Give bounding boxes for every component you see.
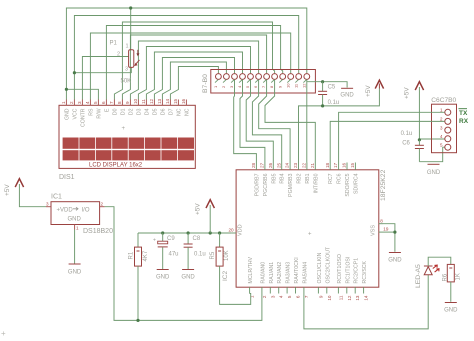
wire net E: LCD pin6 to header pad9 <box>106 26 282 100</box>
svg-text:4: 4 <box>85 101 90 104</box>
ground GND at C5 <box>340 88 354 98</box>
wire net D5: LCD pin12 to header pad3 <box>154 58 234 100</box>
svg-text:C6C7B0: C6C7B0 <box>431 97 456 104</box>
ground GND at R6 <box>444 303 458 314</box>
resistor R1 4K7 <box>128 233 149 320</box>
svg-text:50K: 50K <box>121 79 132 85</box>
svg-text:11: 11 <box>141 99 146 104</box>
svg-text:RA3/AN3: RA3/AN3 <box>286 262 292 284</box>
connector C6C7B0 <box>431 97 456 153</box>
junction rail at +5V stem <box>209 231 212 234</box>
svg-text:+5V: +5V <box>365 85 372 97</box>
MCU bottom pin numbers <box>250 295 369 301</box>
svg-text:C8: C8 <box>193 236 201 242</box>
svg-text:GND: GND <box>340 93 354 99</box>
MCU bottom pin labels <box>248 246 368 283</box>
header B7-B0 <box>202 70 315 94</box>
wire R5 to MCU pin1 MCLR <box>220 266 251 304</box>
svg-text:NC: NC <box>184 108 190 116</box>
junction C5 bottom <box>321 104 324 107</box>
svg-text:D2: D2 <box>128 108 134 115</box>
wire staircase header pad5 to MCU pin26 <box>246 80 273 163</box>
svg-text:D1: D1 <box>120 108 126 115</box>
svg-text:27: 27 <box>260 162 265 168</box>
wire RX: connector pad2 to MCU pin18 <box>330 121 444 162</box>
MCU bottom pin stubs <box>250 287 364 293</box>
svg-text:18F25K22: 18F25K22 <box>380 169 387 201</box>
svg-text:12: 12 <box>149 98 154 104</box>
wire staircase header pad8 to MCU pin21 <box>265 80 315 163</box>
svg-text:VDD: VDD <box>238 224 244 236</box>
svg-text:+5V: +5V <box>404 87 411 99</box>
svg-text:GND: GND <box>181 275 195 281</box>
svg-text:28: 28 <box>251 162 256 168</box>
svg-text:GND: GND <box>427 170 441 176</box>
svg-text:+: + <box>122 126 126 132</box>
wire net D3: LCD pin10 to header pad5 <box>138 47 250 100</box>
svg-text:9: 9 <box>318 295 323 298</box>
svg-text:2: 2 <box>262 295 267 298</box>
junction GND jumper <box>65 88 68 91</box>
capacitor C6 0.1u <box>401 131 424 162</box>
svg-text:20: 20 <box>229 228 235 233</box>
svg-text:0.1u: 0.1u <box>194 252 206 258</box>
svg-text:RB2: RB2 <box>297 173 303 183</box>
svg-text:SDO/RC5: SDO/RC5 <box>345 173 351 196</box>
svg-text:RB5: RB5 <box>271 173 277 183</box>
wire staircase header pad7 to MCU pin24 <box>259 80 290 163</box>
temperature sensor IC1 DS18B20 <box>46 194 113 236</box>
svg-text:24: 24 <box>285 162 290 168</box>
svg-text:16: 16 <box>181 98 186 104</box>
LCD character cells <box>63 138 194 161</box>
wire LED anode to R6 <box>428 257 451 266</box>
svg-text:2: 2 <box>101 202 104 207</box>
svg-text:18: 18 <box>325 162 330 168</box>
svg-text:NC: NC <box>176 108 182 116</box>
junction rail at R5 <box>218 231 221 234</box>
wire VSS pins to ground <box>383 224 395 252</box>
junction JP1 pin3 on VCC wire <box>73 71 76 74</box>
svg-text:9: 9 <box>125 101 130 104</box>
svg-text:+5V: +5V <box>195 203 202 215</box>
svg-text:0.1u: 0.1u <box>401 131 413 137</box>
svg-text:C5: C5 <box>328 85 336 91</box>
svg-text:I/O: I/O <box>82 208 90 214</box>
wire header pad12 straight down to MCU pin22 <box>306 80 308 163</box>
svg-text:GND: GND <box>388 258 402 264</box>
svg-text:RC2/CCP1: RC2/CCP1 <box>354 258 360 284</box>
wire +5V rail VDD: R1 C9 C8 R5 to pin20 <box>138 232 232 234</box>
svg-text:R/W: R/W <box>96 108 102 118</box>
svg-text:GND: GND <box>444 308 458 314</box>
svg-text:5: 5 <box>93 101 98 104</box>
LCD pin stubs and numbers <box>61 98 191 132</box>
LCD DISPLAY DIS1 <box>59 105 195 168</box>
ground GND at DS18B20 <box>68 264 82 276</box>
svg-text:8: 8 <box>380 218 383 223</box>
supply +5V arrow near C5 <box>365 80 384 97</box>
resistor R5 10K pullup <box>210 233 230 266</box>
svg-text:17: 17 <box>333 162 338 168</box>
svg-text:DIS1: DIS1 <box>59 174 75 181</box>
svg-text:R1: R1 <box>128 251 134 259</box>
svg-text:TX: TX <box>459 110 468 117</box>
svg-text:VSS: VSS <box>371 225 377 236</box>
ground GND at connector <box>427 164 441 176</box>
svg-text:23: 23 <box>293 162 298 168</box>
svg-text:1: 1 <box>61 101 66 104</box>
svg-text:GND: GND <box>156 275 170 281</box>
svg-text:CONTR: CONTR <box>80 108 86 127</box>
wire DS18B20 I/O to MCU pin2 with R1 junction <box>105 207 262 321</box>
svg-text:7: 7 <box>109 101 114 104</box>
svg-text:22: 22 <box>302 162 307 168</box>
svg-text:D4: D4 <box>144 108 150 115</box>
svg-text:OSC1/CLKIN: OSC1/CLKIN <box>317 252 323 283</box>
svg-text:6: 6 <box>101 101 106 104</box>
svg-text:IC1: IC1 <box>51 194 62 201</box>
svg-text:D6: D6 <box>160 108 166 115</box>
svg-text:3: 3 <box>46 202 49 207</box>
svg-text:RA1/AN1: RA1/AN1 <box>269 262 275 284</box>
svg-text:25: 25 <box>276 162 281 168</box>
capacitor C5 0.1u <box>318 82 339 106</box>
svg-text:P1: P1 <box>110 41 118 47</box>
svg-text:14: 14 <box>165 98 170 104</box>
wire MCU pin7 to LED cathode <box>304 275 428 329</box>
svg-text:VCC: VCC <box>72 108 78 119</box>
svg-text:15: 15 <box>350 162 355 168</box>
svg-text:R6: R6 <box>442 273 448 281</box>
wire JP1 pin1 riser <box>130 8 132 50</box>
svg-text:+VDD: +VDD <box>57 208 74 214</box>
wire TX: connector pad1 to MCU pin17 <box>339 112 445 162</box>
svg-text:13: 13 <box>355 295 360 301</box>
svg-text:+: + <box>153 238 156 244</box>
svg-text:E: E <box>104 108 110 112</box>
svg-text:LED-A5: LED-A5 <box>415 264 422 288</box>
svg-text:GND: GND <box>68 270 82 276</box>
svg-text:3: 3 <box>270 295 275 298</box>
wire net D0: LCD pin7 to header pad8 <box>114 22 274 100</box>
svg-text:1: 1 <box>126 44 129 50</box>
svg-text:3: 3 <box>77 101 82 104</box>
wire net GND: LCD pin1 to header pad12, top outer loop <box>66 8 306 100</box>
svg-text:10: 10 <box>285 83 290 88</box>
wire GND jumper to LCD pin5 R/W <box>66 89 98 99</box>
wire net D2: LCD pin9 to header pad6 <box>130 41 258 100</box>
svg-text:LCD DISPLAY 16x2: LCD DISPLAY 16x2 <box>89 162 143 168</box>
svg-text:IC2: IC2 <box>222 271 229 282</box>
MCU top pin stubs <box>256 163 355 170</box>
wire +5V rail to MCU pin23 <box>299 89 380 163</box>
svg-text:12: 12 <box>347 295 352 301</box>
wire net RS: LCD pin4 to header pad10 <box>90 33 290 100</box>
svg-text:RC6: RC6 <box>337 173 343 183</box>
capacitor C9 47u polarized <box>153 233 179 281</box>
svg-text:21: 21 <box>310 162 315 168</box>
svg-text:RC3/SCK: RC3/SCK <box>362 260 368 283</box>
wire connector pad4 to +5V <box>419 138 444 141</box>
svg-text:+: + <box>1 329 6 338</box>
supply +5V arrow above rail <box>195 200 215 233</box>
svg-text:19: 19 <box>383 227 389 232</box>
wire header GND: pad12 right to gnd <box>307 82 347 88</box>
junction JP1 top on GND line <box>129 6 132 9</box>
svg-text:D7: D7 <box>168 108 174 115</box>
svg-text:12: 12 <box>301 83 306 88</box>
capacitor C8 0.1u <box>181 233 205 281</box>
junction rail at C8 <box>187 231 190 234</box>
svg-text:DS18B20: DS18B20 <box>83 228 113 235</box>
svg-text:5: 5 <box>287 295 292 298</box>
svg-text:4: 4 <box>279 295 284 298</box>
wire connector pad5 to gnd rail <box>419 147 444 162</box>
junction rail at C9 <box>161 231 164 234</box>
svg-text:PGD/RB7: PGD/RB7 <box>254 173 260 196</box>
svg-text:RS: RS <box>88 108 94 116</box>
potentiometer JP1 <box>110 41 140 85</box>
wire JP1 wiper to LCD pin3 CONTR <box>82 57 128 100</box>
svg-text:0.1u: 0.1u <box>328 100 340 106</box>
svg-text:D3: D3 <box>136 108 142 115</box>
svg-text:2: 2 <box>117 52 120 58</box>
svg-text:RA5/AN4: RA5/AN4 <box>302 262 308 284</box>
svg-text:D0: D0 <box>112 108 118 115</box>
svg-text:C6: C6 <box>402 141 410 147</box>
svg-text:+: + <box>308 232 312 238</box>
svg-text:SDI/RC4: SDI/RC4 <box>353 173 359 194</box>
wire JP1 pin3 to VCC vertical <box>74 67 131 72</box>
svg-text:RC1/T1OSI: RC1/T1OSI <box>345 257 351 284</box>
wire DS18B20 GND stem <box>74 230 76 264</box>
svg-text:2: 2 <box>69 101 74 104</box>
svg-text:11: 11 <box>338 295 343 300</box>
wire staircase header pad3 to MCU pin28 <box>234 80 257 163</box>
svg-text:7: 7 <box>304 295 309 298</box>
MCU top pin numbers <box>251 162 355 168</box>
svg-text:26: 26 <box>268 162 273 168</box>
svg-text:RC0/T1OSO: RC0/T1OSO <box>337 254 343 283</box>
MCU top pin labels <box>254 173 359 196</box>
svg-text:D5: D5 <box>152 108 158 115</box>
svg-text:RB4: RB4 <box>280 173 286 183</box>
supply +5V arrow at connector <box>404 82 424 140</box>
svg-text:6: 6 <box>296 295 301 298</box>
svg-text:RC7: RC7 <box>328 173 334 183</box>
svg-text:10K: 10K <box>224 250 230 261</box>
svg-text:14: 14 <box>364 295 369 301</box>
svg-text:PGC/RB6: PGC/RB6 <box>263 173 269 196</box>
wire staircase header pad6 to MCU pin25 <box>252 80 281 163</box>
svg-text:RX: RX <box>459 118 469 125</box>
svg-text:R5: R5 <box>210 251 216 259</box>
wire staircase header pad4 to MCU pin27 <box>240 80 265 163</box>
MCU left pin 20 VDD stub <box>229 228 237 234</box>
svg-text:GND: GND <box>64 108 70 120</box>
wire net D6: LCD pin13 to header pad2 <box>162 62 226 100</box>
svg-text:1: 1 <box>76 226 79 231</box>
junction VSS <box>393 231 396 234</box>
svg-text:4K7: 4K7 <box>143 250 149 261</box>
wire net D7: LCD pin14 to header pad1 <box>170 67 218 100</box>
svg-text:GND: GND <box>68 217 82 223</box>
svg-text:47u: 47u <box>169 252 179 258</box>
microcontroller IC2 18F25K22 <box>222 169 387 287</box>
wire net D4: LCD pin11 to header pad4 <box>146 52 242 100</box>
svg-text:1K: 1K <box>456 273 462 280</box>
resistor R6 1K <box>442 264 461 301</box>
svg-text:RA4/T0CKI: RA4/T0CKI <box>294 257 300 283</box>
junction R1 bottom <box>136 319 139 322</box>
svg-text:RA0/AN0: RA0/AN0 <box>260 262 266 284</box>
wire net D1: LCD pin8 to header pad7 <box>122 35 266 100</box>
svg-text:3: 3 <box>125 67 128 73</box>
MCU right pins 8 and 19 VSS <box>379 218 389 232</box>
svg-text:OSC2/CLKOUT: OSC2/CLKOUT <box>325 246 331 283</box>
junction C5 top <box>321 80 324 83</box>
svg-text:15: 15 <box>173 98 178 104</box>
svg-text:10: 10 <box>133 98 138 104</box>
svg-text:16: 16 <box>342 162 347 168</box>
svg-text:8: 8 <box>117 101 122 104</box>
supply +5V arrow at DS18B20 <box>4 179 46 207</box>
LED LED-A5 <box>415 264 439 288</box>
svg-text:13: 13 <box>157 98 162 104</box>
svg-text:B7-B0: B7-B0 <box>202 74 209 93</box>
svg-text:PGM/RB3: PGM/RB3 <box>288 173 294 196</box>
ground GND at VSS <box>388 253 402 264</box>
svg-text:RB1: RB1 <box>305 173 311 183</box>
wire net VCC: LCD pin2 to header pad11 <box>74 16 298 100</box>
net label TX <box>459 109 469 126</box>
svg-text:+5V: +5V <box>4 184 11 196</box>
svg-text:RA2/AN2: RA2/AN2 <box>277 262 283 284</box>
junction C6 top <box>418 138 421 141</box>
svg-text:INT/RB0: INT/RB0 <box>313 173 319 193</box>
svg-text:10: 10 <box>327 295 332 301</box>
svg-text:MCLR/THV: MCLR/THV <box>248 256 254 283</box>
svg-text:C9: C9 <box>167 236 175 242</box>
